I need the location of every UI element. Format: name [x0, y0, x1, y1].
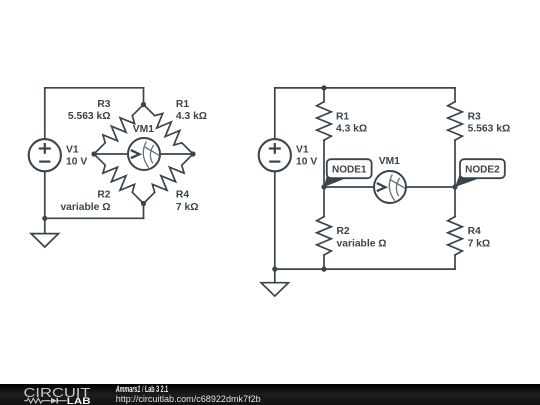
wire VM1 left lead (right circuit): [324, 186, 374, 188]
svg-text:4.3 kΩ: 4.3 kΩ: [336, 124, 367, 135]
svg-text:variable Ω: variable Ω: [337, 238, 387, 249]
svg-text:http://circuitlab.com/c68922dm: http://circuitlab.com/c68922dmk7f2b: [116, 394, 261, 404]
resistor R1 (left circuit, 4.3 kOhm): [144, 105, 194, 155]
node dot R2 bottom junction: [321, 267, 326, 272]
voltage source V1 (right circuit): [259, 139, 291, 171]
wire V1 bottom lead: [44, 171, 46, 218]
wire diamond bottom riser: [143, 204, 145, 219]
svg-text:R1: R1: [336, 111, 349, 122]
wire top rail right circuit: [275, 87, 455, 89]
resistor R1 (right circuit, 4.3 kOhm): [317, 102, 332, 140]
wire VM1 right lead (right circuit): [406, 186, 455, 188]
wire V1 top lead: [44, 88, 46, 139]
svg-text:V1: V1: [66, 144, 79, 155]
wire R3 top lead: [454, 88, 456, 102]
wire R4 top lead: [454, 187, 456, 217]
svg-text:R2: R2: [337, 226, 350, 237]
svg-text:VM1: VM1: [133, 124, 154, 135]
svg-text:R3: R3: [468, 111, 481, 122]
node dot diamond bottom: [141, 201, 146, 206]
wire R1 top lead: [323, 88, 325, 102]
voltmeter VM1 (left circuit): [128, 138, 160, 170]
wire diamond top drop: [143, 88, 145, 105]
node dot diamond top: [141, 102, 146, 107]
svg-text:R1: R1: [176, 99, 189, 110]
wire R1 bottom lead: [323, 140, 325, 187]
wire bottom rail left circuit: [45, 217, 144, 219]
resistor R2 (left circuit, variable): [94, 154, 144, 204]
ground (right circuit): [274, 269, 276, 282]
wire voltmeter right lead: [160, 153, 193, 155]
resistor R2 (right circuit, variable): [317, 217, 332, 255]
node flag NODE1: [324, 170, 346, 188]
svg-text:10 V: 10 V: [66, 157, 87, 168]
wire bottom rail right circuit: [275, 268, 455, 270]
node flag NODE2: [455, 170, 479, 187]
wire top rail left circuit: [45, 87, 144, 89]
node dot NODE1 junction: [321, 184, 326, 189]
svg-text:variable Ω: variable Ω: [60, 202, 110, 213]
CircuitLab logo diode: [51, 398, 57, 404]
wire R4 bottom lead: [454, 255, 456, 269]
resistor R3 (left circuit, 5.563 kOhm): [94, 105, 144, 155]
wire R3 bottom lead: [454, 140, 456, 187]
wire V1 bottom lead (right): [274, 171, 276, 269]
node dot diamond right: [190, 151, 195, 156]
svg-text:7 kΩ: 7 kΩ: [468, 238, 491, 249]
svg-text:R3: R3: [97, 99, 110, 110]
node dot ground junction right circuit: [272, 267, 277, 272]
node dot diamond left: [91, 151, 96, 156]
CircuitLab logo resistor squiggle: [24, 398, 51, 403]
voltage source V1 (left circuit): [29, 139, 61, 171]
node dot NODE2 junction: [452, 184, 457, 189]
svg-text:10 V: 10 V: [296, 157, 317, 168]
wire V1 top lead (right): [274, 88, 276, 139]
svg-text:VM1: VM1: [379, 156, 400, 167]
svg-text:NODE2: NODE2: [465, 165, 500, 176]
svg-text:5.563 kΩ: 5.563 kΩ: [468, 124, 511, 135]
svg-text:R4: R4: [468, 226, 481, 237]
ground (left circuit): [44, 218, 46, 233]
wire voltmeter left lead: [94, 153, 128, 155]
svg-text:V1: V1: [296, 144, 309, 155]
svg-text:5.563 kΩ: 5.563 kΩ: [68, 111, 111, 122]
wire R2 top lead: [323, 187, 325, 217]
svg-text:LAB: LAB: [67, 396, 91, 405]
resistor R4 (right circuit, 7 kOhm): [448, 217, 463, 255]
resistor R3 (right circuit, 5.563 kOhm): [448, 102, 463, 140]
wire R2 bottom lead: [323, 255, 325, 269]
svg-text:R4: R4: [176, 190, 189, 201]
svg-text:7 kΩ: 7 kΩ: [176, 202, 199, 213]
svg-text:4.3 kΩ: 4.3 kΩ: [176, 111, 207, 122]
resistor R4 (left circuit, 7 kOhm): [144, 154, 194, 204]
node dot top junction right circuit: [321, 85, 326, 90]
svg-text:NODE1: NODE1: [332, 165, 367, 176]
node dot ground junction left circuit: [42, 216, 47, 221]
svg-text:R2: R2: [97, 190, 110, 201]
voltmeter VM1 (right circuit): [374, 171, 406, 203]
svg-text:Ammars1 / Lab 3 2.1: Ammars1 / Lab 3 2.1: [115, 384, 168, 394]
